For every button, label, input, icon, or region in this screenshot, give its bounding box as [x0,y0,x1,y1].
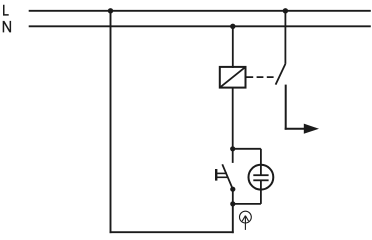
mechanical linkage dashed line coil to contact [246,76,276,78]
relay coil K1 box [220,67,246,88]
glow lamp E1 lower electrode [253,179,268,181]
wire L line [29,10,371,12]
wire lamp branch bottom horizontal [233,203,261,205]
push button S1 actuator lower prong [216,176,227,178]
lamp position symbol arrowhead right wing [245,216,248,221]
wire bottom right vertical up to lamp-return node [232,204,234,233]
node junction dot on L (right, feed to relay contact) [283,8,288,13]
push button S1 blade [222,164,233,189]
glow lamp E1 bottom stem [260,180,262,204]
wire lamp branch top vertical [260,149,262,165]
relay contact K1 bottom terminal [285,85,287,130]
glow lamp E1 upper electrode [253,174,268,176]
push button S1 actuator bar [215,169,217,181]
push button S1 actuator upper prong [216,172,227,174]
label N (neutral) [3,21,11,33]
node dot lamp-return junction [230,201,235,206]
wire lamp branch top horizontal [233,148,261,150]
glow lamp E1 circle [249,165,274,190]
node junction dot on L (left, feed to push button) [108,8,113,13]
arrow to load head [304,124,319,134]
wire left vertical from L down [110,11,112,233]
lamp position symbol arrow shaft [244,216,246,230]
relay coil K1 diagonal [220,67,246,88]
push button S1 top terminal [232,149,234,163]
wire from coil bottom to lamp-branch node [232,88,234,149]
wire to load horizontal [285,128,305,130]
relay contact K1 top terminal from L [284,11,286,64]
node dot push-button pivot [230,187,235,192]
wire coil top to N [232,26,234,68]
lamp position symbol arrowhead left wing [242,216,245,221]
wire N line [29,25,371,27]
wire between lamp-return node and button pivot [232,189,234,204]
relay contact K1 blade [276,64,286,85]
node dot lamp-branch junction [230,146,235,151]
wire bottom horizontal [110,231,234,233]
lamp position symbol circle [240,211,252,223]
glow lamp E1 top stem [260,165,262,175]
node junction dot on N (feed to relay coil) [230,24,235,29]
label L (phase) [3,5,9,16]
